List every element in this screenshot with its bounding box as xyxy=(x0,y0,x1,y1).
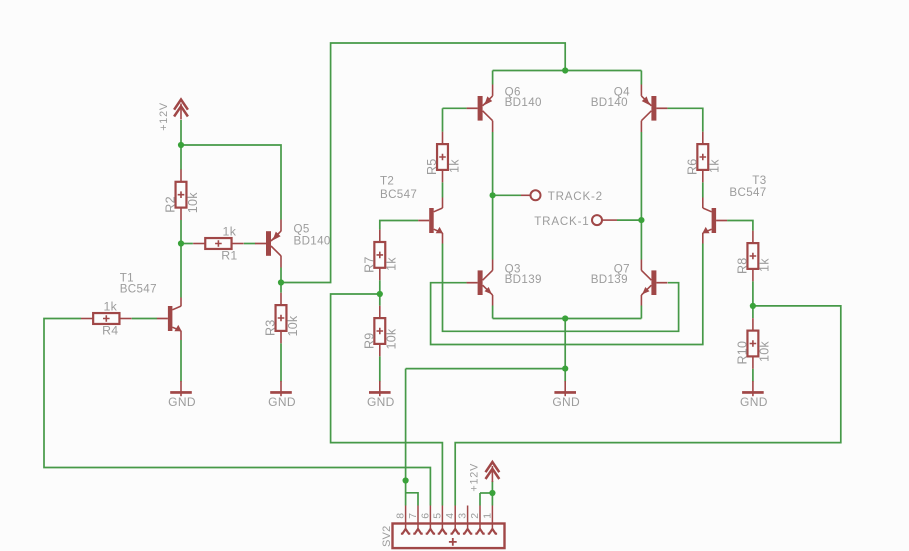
wire junction E to pin4 net xyxy=(455,306,841,506)
label R1 name xyxy=(221,249,237,263)
svg-text:BD139: BD139 xyxy=(591,273,628,286)
label T3 value xyxy=(729,186,766,199)
label SV2 pin 6 number xyxy=(419,513,431,519)
node pin8 junction xyxy=(403,477,409,483)
wire R8 bottom to junction E xyxy=(752,281,754,306)
label R1 value xyxy=(223,225,237,239)
node top-rail junction xyxy=(562,67,568,73)
svg-text:1k: 1k xyxy=(385,257,399,271)
label Q5 name xyxy=(294,223,310,236)
wire Q5 collector to node C xyxy=(280,268,282,283)
label T1 name xyxy=(120,272,134,285)
label R7 value xyxy=(385,257,399,271)
resistor R5 xyxy=(437,132,448,183)
wire TRACK-2 node to Q3 collector xyxy=(492,195,494,259)
transistor T1 xyxy=(157,306,182,331)
connector SV2 pin 2 xyxy=(475,506,484,534)
wire T2 base to R7 xyxy=(380,221,418,230)
wire T1 emitter to GND1 xyxy=(180,340,182,382)
wire R6 bottom to T3 collector xyxy=(702,182,704,197)
label Q5 value xyxy=(294,234,331,247)
label R5 name xyxy=(425,159,439,176)
label SV2 pin 3 number xyxy=(457,513,469,519)
svg-text:GND: GND xyxy=(552,395,580,409)
wire Q6 base down to R5 top xyxy=(442,108,444,132)
wire emitter top rail xyxy=(493,70,642,72)
svg-text:10k: 10k xyxy=(758,341,772,362)
label T2 value xyxy=(380,188,417,201)
label R10 value xyxy=(758,341,772,362)
label T2 name xyxy=(380,175,394,188)
label Q6 value xyxy=(505,96,542,109)
wire pins78 drop xyxy=(405,369,407,506)
label Q4 value xyxy=(591,96,628,109)
label R9 name xyxy=(363,333,377,350)
wire junction D to pin5 net xyxy=(331,294,443,506)
resistor R6 xyxy=(697,132,708,183)
label GND2 GND xyxy=(268,395,296,409)
wire Q6 base to R5 xyxy=(443,107,467,109)
wire Q6 collector to TRACK-2 node xyxy=(492,132,494,195)
label Q7 name xyxy=(614,262,630,275)
node A junction xyxy=(178,142,184,148)
svg-text:R4: R4 xyxy=(102,324,118,338)
ground GND2 xyxy=(270,381,292,396)
transistor Q5 xyxy=(255,231,281,256)
svg-text:BD140: BD140 xyxy=(591,96,628,109)
label Q7 value xyxy=(591,273,628,286)
wire R5 bottom to T2 collector xyxy=(442,182,444,197)
pin TRACK-1 xyxy=(592,215,617,225)
svg-text:BC547: BC547 xyxy=(120,283,157,296)
wire T3 base to R8 xyxy=(727,221,753,231)
ground GND1 xyxy=(170,381,192,396)
svg-text:1k: 1k xyxy=(223,225,237,239)
node B junction xyxy=(178,240,184,246)
wire T2 emitter to Q7 base xyxy=(443,244,679,332)
ground GND5 xyxy=(742,381,764,396)
pin T2 emitter stub xyxy=(442,233,444,244)
wire node C to top rail xyxy=(281,43,565,283)
svg-text:1k: 1k xyxy=(758,258,772,272)
label R8 value xyxy=(758,258,772,272)
transistor Q6 xyxy=(467,96,493,121)
svg-text:R3: R3 xyxy=(264,320,278,337)
svg-text:+12V: +12V xyxy=(469,463,481,492)
pin Q7 collector stub xyxy=(640,260,642,271)
svg-text:R7: R7 xyxy=(363,256,377,273)
pin T1 collector stub xyxy=(180,298,182,307)
wire TRACK-1 node to Q7 collector xyxy=(640,220,642,259)
wire Q3 base crossover to T3 emitter xyxy=(431,244,703,345)
label R2 value xyxy=(186,192,200,213)
connector SV2 pin 6 xyxy=(426,506,435,534)
wire R3 bottom to GND2 xyxy=(280,343,282,381)
wire junction D to R9 xyxy=(379,294,381,306)
label +12V top xyxy=(158,102,170,131)
label TRACK-2 xyxy=(548,190,603,203)
pin Q5 collector stub xyxy=(280,256,282,268)
wire R10 bottom to GND5 xyxy=(752,369,754,382)
wire junction B to R1 left xyxy=(181,243,193,245)
connector SV2 pin 7 xyxy=(413,506,422,534)
label SV2 pin 8 number xyxy=(395,513,407,519)
resistor R2 xyxy=(176,169,187,220)
svg-text:TRACK-2: TRACK-2 xyxy=(548,190,603,203)
svg-text:8: 8 xyxy=(395,513,407,519)
label T1 value xyxy=(120,283,157,296)
label R5 value xyxy=(447,159,461,173)
node TRACK-2 junction xyxy=(490,192,496,198)
label R9 value xyxy=(385,328,399,349)
wire pin2 drop xyxy=(479,493,481,506)
svg-text:+12V: +12V xyxy=(158,102,170,131)
pin Q6 collector stub xyxy=(492,121,494,132)
label Q3 value xyxy=(505,273,542,286)
svg-text:SV2: SV2 xyxy=(381,526,393,547)
label R6 value xyxy=(708,159,722,173)
label Q4 name xyxy=(614,85,630,98)
wire rail to Q6 emitter xyxy=(492,71,494,85)
svg-text:R6: R6 xyxy=(686,159,700,176)
label R4 value xyxy=(103,300,117,314)
node pin1 junction xyxy=(489,490,495,496)
label Q3 name xyxy=(505,262,521,275)
svg-text:GND: GND xyxy=(740,395,768,409)
svg-text:R2: R2 xyxy=(164,196,178,213)
label R6 name xyxy=(686,159,700,176)
wire pin7 jog xyxy=(406,493,418,506)
connector SV2 body xyxy=(393,524,505,549)
connector SV2 pin 1 xyxy=(488,506,497,534)
label R7 name xyxy=(363,256,377,273)
svg-text:3: 3 xyxy=(457,513,469,519)
svg-text:R5: R5 xyxy=(425,159,439,176)
svg-text:7: 7 xyxy=(407,513,419,519)
wire rail to GND4 xyxy=(564,319,566,382)
wire Q4 collector to TRACK-1 node xyxy=(640,132,642,220)
node TRACK-1 junction xyxy=(638,217,644,223)
pin T3 collector stub xyxy=(702,198,704,209)
node emitter-rail junction xyxy=(562,315,568,321)
transistor Q4 xyxy=(641,96,667,121)
svg-text:R1: R1 xyxy=(221,249,237,263)
svg-text:6: 6 xyxy=(419,513,431,519)
wire +12V to pin1 xyxy=(491,481,493,506)
svg-text:TRACK-1: TRACK-1 xyxy=(534,215,589,228)
label +12V bottom xyxy=(469,463,481,492)
pin Q7 emitter stub xyxy=(640,295,642,306)
svg-text:10k: 10k xyxy=(186,192,200,213)
wire pin2 jog xyxy=(480,492,492,494)
label SV2 pin 2 number xyxy=(469,513,481,519)
svg-text:T3: T3 xyxy=(752,174,766,187)
svg-text:1: 1 xyxy=(481,513,493,519)
svg-text:1k: 1k xyxy=(447,159,461,173)
svg-text:1k: 1k xyxy=(708,159,722,173)
label R10 name xyxy=(736,341,750,365)
connector SV2 pin 5 xyxy=(438,506,447,534)
pin Q3 emitter stub xyxy=(492,295,494,306)
svg-text:BC547: BC547 xyxy=(380,188,417,201)
wire R4 to pin6 net xyxy=(44,319,430,506)
label GND1 GND xyxy=(168,395,196,409)
wire TRACK-1 stub xyxy=(617,219,641,221)
wire R2 bottom to junction B xyxy=(180,220,182,244)
power +12V symbol P1 xyxy=(174,100,188,120)
pin Q5 emitter stub xyxy=(280,220,282,232)
svg-text:10k: 10k xyxy=(286,315,300,336)
ground GND3 xyxy=(369,381,391,396)
label R3 name xyxy=(264,320,278,337)
power +12V symbol P2 xyxy=(486,462,500,482)
svg-text:2: 2 xyxy=(469,513,481,519)
wire pins78 gnd rail xyxy=(406,368,566,370)
transistor Q7 xyxy=(641,270,667,295)
resistor R4 xyxy=(81,313,132,324)
transistor Q3 xyxy=(467,270,493,295)
label GND4 GND xyxy=(552,395,580,409)
label SV2 pin 7 number xyxy=(407,513,419,519)
node D junction xyxy=(377,291,383,297)
wire Q4 base to R6 xyxy=(667,108,702,132)
svg-text:1k: 1k xyxy=(103,300,117,314)
label R4 name xyxy=(102,324,118,338)
label SV2 pin 5 number xyxy=(431,513,443,519)
label GND3 GND xyxy=(367,395,395,409)
resistor R3 xyxy=(276,293,287,344)
wire R9 bottom to GND3 xyxy=(379,356,381,381)
wire Q7 emitter to rail xyxy=(640,306,642,319)
svg-text:R9: R9 xyxy=(363,333,377,350)
svg-text:4: 4 xyxy=(444,513,456,519)
svg-text:R10: R10 xyxy=(736,341,750,365)
resistor R1 xyxy=(193,238,244,249)
pin TRACK-2 xyxy=(521,190,541,200)
label GND5 GND xyxy=(740,395,768,409)
label T3 name xyxy=(752,174,766,187)
transistor T2 xyxy=(418,208,443,233)
pin Q4 collector stub xyxy=(640,121,642,132)
pin T2 collector stub xyxy=(442,198,444,209)
wire T1 base to R4 xyxy=(132,318,157,320)
node E junction xyxy=(750,303,756,309)
label Q6 name xyxy=(505,85,521,98)
label TRACK-1 xyxy=(534,215,589,228)
svg-text:BC547: BC547 xyxy=(729,186,766,199)
resistor R10 xyxy=(747,318,758,369)
svg-text:10k: 10k xyxy=(385,328,399,349)
svg-text:GND: GND xyxy=(367,395,395,409)
label R2 name xyxy=(164,196,178,213)
svg-text:T2: T2 xyxy=(380,175,394,188)
wire Q3 emitter to rail xyxy=(492,306,494,319)
wire rail to Q4 emitter xyxy=(640,71,642,85)
wire junction A to R2 top xyxy=(180,145,182,170)
pin Q3 collector stub xyxy=(492,260,494,271)
svg-text:BD139: BD139 xyxy=(505,273,542,286)
wire junction B to T1 collector xyxy=(180,244,182,298)
node C junction xyxy=(278,279,284,285)
transistor T3 xyxy=(702,208,727,233)
wire emitter bottom rail xyxy=(493,318,642,320)
wire TRACK-2 stub xyxy=(493,194,521,196)
label SV2 pin 1 number xyxy=(481,513,493,519)
resistor R9 xyxy=(374,306,385,357)
pin T1 emitter stub xyxy=(180,331,182,340)
wire node C to R3 xyxy=(280,283,282,293)
wire +12V rail to Q5 emitter xyxy=(181,145,281,220)
svg-text:BD140: BD140 xyxy=(505,96,542,109)
label R3 value xyxy=(286,315,300,336)
connector SV2 pin 8 xyxy=(401,506,410,534)
svg-text:GND: GND xyxy=(168,395,196,409)
pin Q6 emitter stub xyxy=(492,85,494,96)
svg-text:5: 5 xyxy=(431,513,443,519)
wire junction E to R10 xyxy=(752,306,754,318)
wire R7 bottom to junction D xyxy=(379,280,381,294)
label SV2 xyxy=(381,526,393,547)
svg-text:GND: GND xyxy=(268,395,296,409)
resistor R8 xyxy=(747,231,758,282)
connector SV2 pin 4 xyxy=(451,506,460,534)
svg-text:R8: R8 xyxy=(736,258,750,275)
label R8 name xyxy=(736,258,750,275)
label SV2 pin 4 number xyxy=(444,513,456,519)
ground GND4 xyxy=(554,381,576,396)
pin Q4 emitter stub xyxy=(640,85,642,96)
connector SV2 pin 3 xyxy=(463,506,472,534)
svg-text:BD140: BD140 xyxy=(294,234,331,247)
wire R1 right to Q5 base xyxy=(244,243,255,245)
wire +12V stem to junction A xyxy=(180,120,182,145)
resistor R7 xyxy=(374,230,385,281)
pin T3 emitter stub xyxy=(702,233,704,244)
node gnd-rail junction xyxy=(562,366,568,372)
